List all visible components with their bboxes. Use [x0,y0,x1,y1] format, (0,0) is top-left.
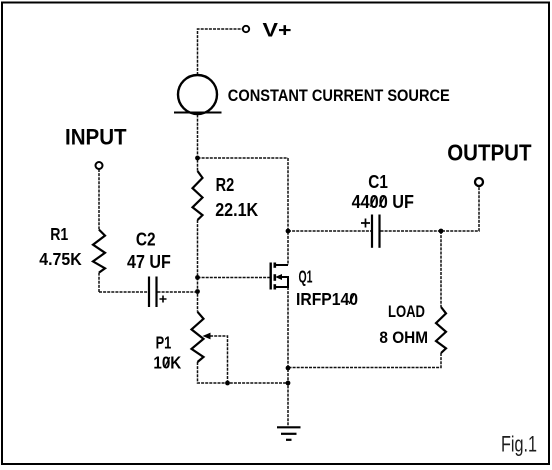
svg-text:LOAD: LOAD [388,302,425,321]
svg-text:CONSTANT CURRENT SOURCE: CONSTANT CURRENT SOURCE [228,86,450,105]
svg-text:Q1: Q1 [299,267,313,287]
svg-text:47 UF: 47 UF [127,252,171,272]
svg-text:V+: V+ [263,20,292,42]
svg-text:8 OHM: 8 OHM [379,328,428,347]
svg-text:4.75K: 4.75K [39,249,82,269]
svg-text:OUTPUT: OUTPUT [447,139,531,165]
svg-text:R2: R2 [216,175,235,195]
svg-text:INPUT: INPUT [65,125,127,150]
svg-text:IRFP140: IRFP140 [296,289,358,309]
svg-text:R1: R1 [50,224,68,244]
svg-text:C2: C2 [136,229,156,249]
svg-text:C1: C1 [368,172,388,192]
svg-text:P1: P1 [156,333,172,353]
svg-text:4400 UF: 4400 UF [352,192,414,212]
svg-text:Fig.1: Fig.1 [501,432,537,457]
svg-text:22.1K: 22.1K [215,200,258,220]
